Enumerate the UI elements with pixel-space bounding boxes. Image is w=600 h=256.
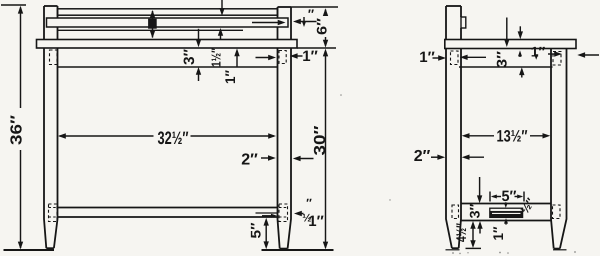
svg-text:″: ″	[308, 7, 314, 22]
front view: extra rail edge line	[58, 29, 244, 31]
svg-text:3″: 3″	[181, 49, 198, 65]
arrow up at slab bottom	[518, 50, 522, 56]
svg-text:13½″: 13½″	[497, 128, 528, 146]
svg-text:3″: 3″	[467, 203, 483, 218]
side view: mortise (dashed) left leg	[451, 51, 459, 65]
floor line under left leg	[4, 249, 55, 251]
svg-text:1″: 1″	[302, 48, 318, 65]
rail B tenon arrow inside rail	[252, 22, 282, 24]
side view: table top slab	[445, 40, 576, 49]
front view: right leg	[278, 48, 280, 249]
front view: upper rail B (tenoned into legs)	[47, 18, 289, 27]
side view: left leg (rear post)	[446, 49, 452, 249]
dimension 30 inch: vertical line and arrows	[325, 51, 327, 248]
arrow pointing left at leg inner edge	[460, 55, 468, 60]
dimension 6 inch: vertical line segment	[325, 10, 327, 15]
arrow up at stretcher bar bottom	[504, 218, 508, 224]
dimension 3 inch: down arrow at slab bottom	[198, 29, 200, 44]
side view: rail tenon tab on post	[461, 17, 466, 28]
arrow down to slab bottom	[506, 18, 508, 44]
svg-text:1″: 1″	[419, 49, 435, 66]
svg-text:1″: 1″	[308, 213, 324, 230]
front view: upper rail A	[58, 9, 278, 15]
dimension 1 inch top right: arrow to leg edge	[293, 55, 303, 57]
svg-text:″: ″	[306, 196, 312, 210]
dimension 5 inch: line and arrows	[264, 218, 269, 226]
dimension 5 inch side: ticks arrows and label	[489, 192, 491, 202]
dimension 1 inch: up arrow at slab bottom	[234, 48, 239, 56]
arrow pointing down at rail A bottom	[221, 0, 223, 13]
front view: lower stretcher	[58, 207, 278, 209]
side view: rail tenon (dashed) right leg	[553, 205, 561, 219]
dimension 3 inch side: up arrow below rail	[477, 221, 482, 229]
dimension 13-1/2 inch: line and arrows	[462, 133, 470, 138]
slab bottom extension line to 30 inch dimension	[297, 47, 336, 49]
svg-text:36″: 36″	[9, 115, 26, 145]
front view: table top slab	[37, 40, 298, 49]
dimension 3 inch side top: up arrow at apron bottom	[519, 67, 524, 75]
svg-text:1″: 1″	[490, 226, 506, 240]
svg-text:1″: 1″	[222, 70, 238, 84]
svg-text:30″: 30″	[312, 125, 329, 155]
svg-text:5″: 5″	[502, 188, 517, 205]
svg-text:1″: 1″	[531, 44, 546, 60]
front view: left leg	[44, 48, 46, 248]
arrow pointing right at leg below slab	[256, 57, 273, 59]
svg-text:3″: 3″	[494, 51, 510, 68]
front view: apron bottom edge	[58, 66, 278, 68]
dimension 32-1/2 inch: line and arrows	[60, 135, 154, 137]
arrow down to slab top	[519, 26, 521, 36]
svg-text:4½″: 4½″	[453, 223, 469, 242]
dimension 1/2 inch top right: small down arrow	[303, 17, 305, 24]
arrow pointing right at stretcher end	[262, 215, 274, 217]
arrow down at stretcher bar	[505, 202, 507, 205]
floor line bits under side legs	[446, 249, 460, 251]
dimension 1/2 inch top right: leader arrow to leg	[296, 21, 317, 23]
arrow pointing left at slab end	[577, 52, 585, 57]
front view: mortise (dashed) right leg top	[279, 51, 286, 64]
floor line under right leg	[262, 249, 334, 251]
svg-text:1½″: 1½″	[209, 48, 224, 67]
dimension 2 inch front: arrows at leg sides	[261, 157, 272, 159]
dimension 1 inch side mid: down arrow	[534, 54, 538, 60]
side view: stretcher end section (black bar)	[490, 208, 523, 217]
dimension 1/2 inch bottom right: arrow	[294, 211, 302, 216]
side view: apron bottom edge	[459, 66, 553, 68]
dimension 36 inch: top extension line	[1, 4, 26, 6]
svg-text:2″: 2″	[414, 148, 431, 165]
svg-text:5″: 5″	[248, 222, 264, 238]
svg-text:32½″: 32½″	[158, 128, 189, 148]
thickness arrow with ink blob at rails	[152, 11, 154, 38]
dimension 36 inch: vertical line and arrows	[20, 8, 22, 109]
dimension 1-1/2 inch: up arrow at rail B bottom	[218, 28, 223, 36]
dimension 6 inch: extension line from leg top	[291, 6, 338, 8]
dimension 1 inch side left: arrow to leg	[433, 57, 443, 59]
svg-text:6″: 6″	[314, 18, 330, 35]
dimension 4-1/2 inch: line and arrows	[470, 221, 475, 229]
front view: stretcher tenon (dashed) in left leg	[49, 204, 58, 222]
side view: right leg	[551, 49, 554, 249]
front view: mortise (dashed) left leg top	[50, 50, 58, 65]
front view: stretcher tenon (dashed) in right leg	[279, 204, 288, 222]
floor tick under 4-1/2 arrow	[466, 247, 482, 249]
side view: mortise (dashed) right leg	[553, 52, 561, 66]
dimension 3 inch side: down arrow above rail	[479, 177, 481, 200]
svg-text:2″: 2″	[241, 152, 258, 169]
front view: stretcher half-lap line	[256, 212, 278, 214]
dimension 2 inch side: arrows	[431, 156, 442, 158]
side view: lower rail	[461, 203, 551, 205]
arrow pointing right at right leg mortise	[548, 53, 559, 55]
side view: rail tenon (dashed) left leg	[452, 205, 459, 219]
scan noise dots	[340, 94, 576, 254]
dimension 3 inch: up arrow at apron bottom	[196, 67, 201, 75]
